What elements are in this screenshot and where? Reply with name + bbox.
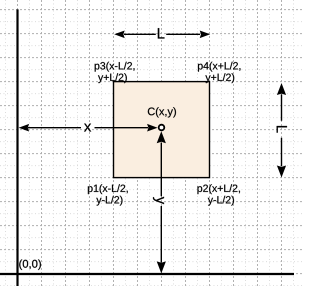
y arrowhead up (at center node) — [157, 131, 166, 143]
y dimension arrow line — [160, 143, 162, 263]
label L (right, rotated) — [277, 126, 287, 133]
x dimension arrow line — [28, 127, 148, 129]
x arrowhead right (at center node) — [147, 124, 158, 132]
top L dimension arrow line — [124, 33, 200, 35]
label p2 line2 — [208, 196, 234, 206]
top L arrowhead left — [114, 31, 125, 39]
x arrowhead left (at y-axis) — [19, 124, 30, 132]
label p2 line1 — [197, 184, 239, 194]
right L arrowhead down — [277, 166, 286, 178]
center node circle C — [159, 125, 165, 131]
y-axis (vertical) — [16, 9, 18, 286]
label p3 line1 — [95, 62, 135, 72]
label p1 line2 — [96, 196, 122, 206]
label L (top) — [158, 28, 165, 38]
label origin (0,0) — [19, 259, 41, 269]
label p3 line2 — [98, 73, 127, 83]
square cell — [114, 82, 210, 178]
right L dimension arrow line — [281, 94, 283, 166]
right L arrowhead up — [277, 83, 286, 95]
top L arrowhead right — [200, 31, 211, 39]
label p4 line2 — [205, 73, 234, 83]
y arrowhead down (at x-axis) — [157, 261, 166, 273]
label C(x,y) — [148, 107, 176, 117]
label p4 line1 — [198, 62, 240, 72]
x-axis (horizontal) — [0, 273, 294, 275]
label p1 line1 — [88, 184, 128, 194]
label y (rotated) — [153, 197, 164, 204]
label x — [84, 124, 91, 132]
